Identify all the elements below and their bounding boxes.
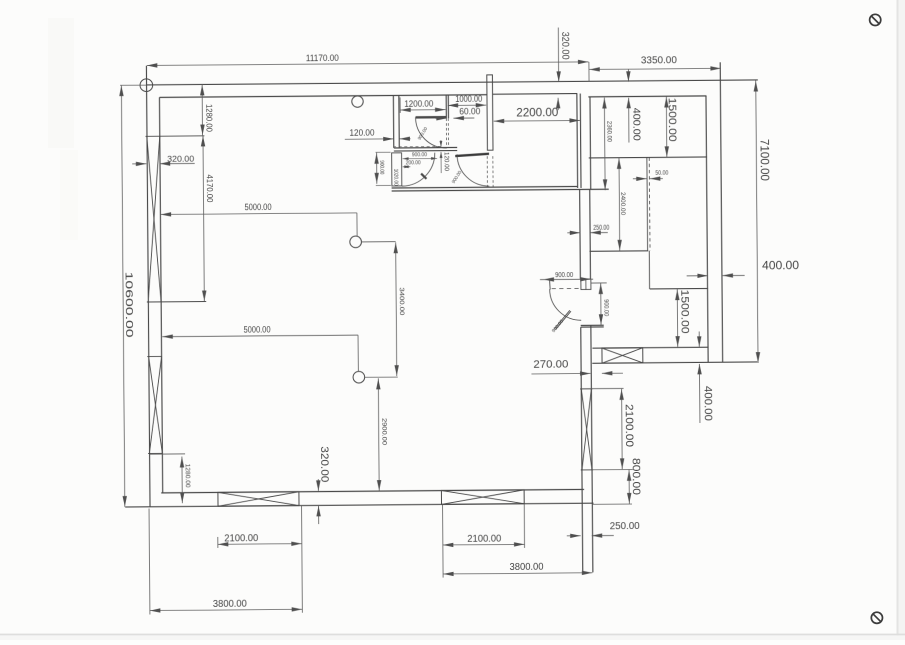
wall wing inner east	[706, 96, 708, 362]
dim 3400.00 connector bottom	[365, 376, 398, 378]
hatch bottom box2	[441, 490, 524, 505]
dim 800.00 line	[628, 470, 630, 504]
hatch left wall upper X	[147, 136, 161, 302]
dim 320.00 bottom arrow lower	[318, 506, 320, 524]
svg-text:1280.00: 1280.00	[204, 104, 214, 132]
wall partition50 dashed	[648, 157, 651, 250]
svg-text:900.00: 900.00	[602, 299, 609, 316]
wall wing west pair upper	[579, 189, 582, 279]
dim 2100.00 wing tick top	[581, 387, 623, 389]
wall wing lower-room top	[650, 288, 708, 290]
dim 400.00 wing-bottom arrows	[698, 331, 700, 346]
hatch wing west tick top	[580, 388, 592, 390]
circle marker mid room lower	[353, 371, 365, 383]
svg-text:1020.00: 1020.00	[392, 169, 398, 186]
dim 2360.00 line	[603, 98, 606, 191]
svg-text:5000.00: 5000.00	[245, 202, 272, 212]
wall left outer	[146, 66, 150, 507]
svg-text:320.00: 320.00	[318, 446, 330, 482]
door2 swing arc	[402, 153, 435, 186]
wall bathroom bottom inner	[392, 186, 578, 188]
hatch bottom box1	[218, 492, 299, 507]
dim 900.00 wc-left line	[376, 153, 378, 184]
dim 3350.00 line	[589, 68, 721, 69]
wall partition60 doorway dashed	[445, 118, 447, 147]
dim 120.00 bathroom arrows	[345, 138, 394, 140]
svg-text:1200.00: 1200.00	[404, 98, 433, 108]
circle marker top-left corner	[140, 79, 153, 92]
svg-text:3800.00: 3800.00	[213, 598, 247, 609]
wall wing mid horizontal upper	[589, 156, 707, 159]
dim 2200.00 line	[494, 119, 580, 122]
dim 200.00 line	[403, 166, 411, 168]
wall right-wing west upper	[589, 97, 592, 189]
door1 leaf	[416, 116, 447, 119]
svg-text:2400.00: 2400.00	[619, 192, 626, 215]
hatch left wall lower X	[149, 356, 163, 453]
dim 1280.00 bottom tick	[150, 453, 185, 455]
dim 800.00 tick bottom	[592, 503, 632, 505]
dim 5000.00 lower line	[162, 335, 358, 337]
dim 11170.00 right extension	[588, 62, 590, 81]
svg-text:2100.00: 2100.00	[622, 404, 634, 447]
svg-text:400.00: 400.00	[762, 260, 799, 272]
door1 swing arc	[416, 117, 447, 148]
dim 1000.00 line	[448, 104, 487, 106]
dim 900.00 wc-left ticks	[376, 151, 391, 153]
wall door4 head box	[581, 279, 591, 289]
circle marker mid room upper	[350, 236, 362, 248]
wall wing bottom inner	[592, 346, 708, 349]
svg-text:11170.00: 11170.00	[306, 53, 339, 63]
svg-text:200.00: 200.00	[406, 160, 421, 166]
dim 3800.00 se line	[443, 573, 592, 574]
dim 270.00 line	[531, 372, 590, 374]
svg-text:400.00: 400.00	[630, 108, 641, 142]
dim 3400.00 connector top	[361, 241, 395, 243]
wall door4 sill pair	[581, 324, 604, 326]
dim 900.00 wing-west line	[600, 283, 602, 325]
svg-text:250.00: 250.00	[593, 223, 609, 232]
svg-text:10600.00: 10600.00	[123, 272, 135, 338]
svg-text:1000.00: 1000.00	[455, 94, 482, 104]
dim 2900.00 line	[377, 378, 380, 491]
hatch left wall upper tick top	[145, 135, 204, 137]
dim 1200.00 left extension	[399, 97, 401, 112]
wall wc pier box	[392, 153, 402, 186]
dim 250.00 wing arrows	[567, 232, 580, 234]
wall top inner room2200 segment	[493, 93, 577, 96]
paper bottom edge shading	[0, 634, 905, 636]
wall top inner west segment	[159, 95, 487, 98]
hatch left wall upper tick bottom	[147, 301, 206, 303]
door4 jamb	[549, 280, 552, 290]
dim 320.00 top lower arrow	[557, 98, 559, 110]
wall wing bottom outer	[592, 362, 757, 363]
dim 2100.00 se extensions	[442, 505, 444, 549]
dim 2100.00 wing tick bottom	[592, 468, 633, 470]
svg-text:270.00: 270.00	[533, 359, 568, 371]
wall top inner right-wing segment	[588, 95, 706, 98]
wall bottom outer	[125, 503, 593, 507]
svg-text:2200.00: 2200.00	[516, 107, 558, 119]
wall wing small vertical	[648, 251, 650, 289]
dim 2100.00 wing line	[621, 389, 624, 469]
dim 3400.00 line	[396, 242, 397, 376]
dim 120.00 wc rotated line	[440, 140, 442, 147]
svg-text:1500.00: 1500.00	[666, 98, 678, 142]
svg-text:900.00: 900.00	[412, 152, 427, 158]
hatch wing west X	[581, 389, 592, 470]
dim 7100.00 line	[756, 81, 758, 363]
dim 5000.00 upper drop to circle	[356, 213, 358, 236]
wall room2200 east pair	[576, 94, 579, 188]
dim 3800.00 sw line	[150, 609, 302, 610]
dim 5000.00 lower drop to circle	[357, 335, 359, 371]
dim 4170.00 line	[203, 135, 204, 301]
wall wing outer east	[720, 62, 722, 362]
svg-text:50.00: 50.00	[655, 170, 668, 177]
dim 1500.00 wing-lower line	[676, 289, 678, 347]
svg-text:2100.00: 2100.00	[224, 533, 258, 544]
svg-text:3800.00: 3800.00	[509, 562, 543, 573]
door3 leaf	[455, 153, 489, 158]
dim 3800.00 sw left extension	[148, 508, 151, 614]
svg-text:120.00: 120.00	[349, 127, 374, 137]
door2 leaf	[421, 174, 426, 179]
dim 10600.00 line	[121, 85, 124, 507]
svg-text:4170.00: 4170.00	[205, 174, 215, 202]
dim 400.00 top line	[627, 70, 629, 82]
punch hole mark bottom right	[871, 612, 882, 623]
svg-text:2900.00: 2900.00	[380, 418, 387, 445]
dim 320.00 top line	[557, 28, 559, 82]
hatch wing west tick bottom	[581, 469, 593, 471]
wall partition60 solid	[445, 95, 447, 118]
hatch left wall lower tick top	[147, 355, 161, 357]
svg-text:60.00: 60.00	[459, 106, 480, 116]
svg-text:250.00: 250.00	[610, 521, 641, 532]
svg-text:7100.00: 7100.00	[757, 139, 769, 181]
dim 1280.00 top line	[201, 84, 203, 135]
wall wing west pair lower	[581, 327, 583, 572]
dim 250.00 bottom arrows	[567, 535, 581, 537]
svg-text:320.00: 320.00	[559, 32, 570, 60]
wall wing mid horizontal lower	[590, 250, 649, 252]
dim 50.00 arrows	[633, 178, 647, 180]
wall bathroom mid pair	[394, 146, 457, 149]
dim 400.00 east arrows	[687, 275, 708, 277]
dim 900.00 wc-inner line	[403, 157, 437, 159]
faint scan smudges	[48, 18, 74, 148]
dim 5000.00 upper line	[161, 213, 357, 215]
svg-text:800.00: 800.00	[630, 458, 642, 495]
svg-text:2100.00: 2100.00	[467, 533, 501, 544]
svg-text:1280.00: 1280.00	[184, 464, 191, 489]
dim 2100.00 se line	[443, 543, 525, 546]
wall bottom inner	[161, 489, 584, 492]
punch hole mark top right	[870, 14, 881, 25]
wall left inner	[159, 97, 162, 492]
dim 60.00 arrows	[435, 117, 446, 119]
dim 2100.00 sw extensions	[217, 537, 219, 548]
door4 swing arc	[550, 289, 582, 321]
dim 320.00 bottom arrow upper	[317, 479, 319, 491]
hatch left wall lower tick bottom	[148, 452, 162, 454]
svg-text:900.00: 900.00	[378, 160, 384, 174]
wall doorway3 dashed pair	[486, 156, 488, 187]
hatch wing bottom box	[602, 348, 643, 363]
wall shaft	[487, 75, 493, 150]
wall bathroom bottom outer	[392, 189, 609, 191]
dim 1280.00 bottom line	[181, 457, 183, 504]
svg-text:3400.00: 3400.00	[398, 287, 405, 315]
paper right edge shading	[897, 0, 899, 640]
dim 320.00 left arrows	[132, 163, 146, 165]
svg-text:3350.00: 3350.00	[641, 55, 678, 66]
svg-text:5000.00: 5000.00	[244, 324, 271, 334]
wall bathroom top-row dashed floor line	[393, 145, 440, 147]
dim 3800.00 se right extension	[442, 549, 444, 578]
svg-text:2360.00: 2360.00	[605, 121, 612, 142]
dim 2400.00 line	[618, 158, 621, 251]
dim 1200.00 line	[400, 109, 445, 111]
dim 1500.00 wing-top line	[665, 96, 667, 157]
svg-text:120.00: 120.00	[443, 152, 450, 172]
door4 leaf double line	[554, 310, 570, 328]
wall partition50 solid	[646, 158, 649, 251]
door4 opening dashed	[552, 287, 579, 289]
dim 900.00 wing-west tick top	[591, 282, 607, 284]
dim 2100.00 sw line	[218, 543, 302, 546]
dim 11170.00 line	[147, 62, 589, 66]
circle marker top wall	[352, 96, 363, 107]
wall bathroom west pair	[392, 95, 394, 147]
svg-text:1500.00: 1500.00	[678, 290, 690, 334]
dim 10600.00 top extension	[120, 84, 146, 86]
svg-text:400.00: 400.00	[701, 386, 713, 421]
svg-text:900.00: 900.00	[555, 270, 573, 279]
wall top outer	[146, 80, 757, 85]
svg-text:320.00: 320.00	[167, 155, 195, 164]
door3 swing arc	[457, 154, 489, 186]
dim 900.00 door4 line	[540, 278, 593, 280]
